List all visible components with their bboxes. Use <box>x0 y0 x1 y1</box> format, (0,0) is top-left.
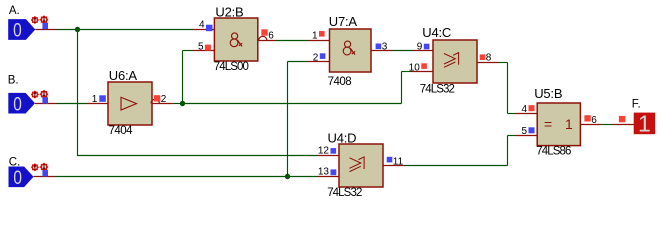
svg-text:4: 4 <box>521 104 527 115</box>
svg-text:74LS32: 74LS32 <box>420 83 455 95</box>
svg-text:C.: C. <box>9 156 20 168</box>
svg-text:10: 10 <box>409 62 421 73</box>
svg-text:0: 0 <box>13 21 22 42</box>
svg-text:74LS00: 74LS00 <box>214 61 249 73</box>
svg-text:U2:B: U2:B <box>215 5 243 20</box>
svg-text:12: 12 <box>318 145 330 156</box>
svg-text:9: 9 <box>417 41 423 52</box>
svg-text:4: 4 <box>199 19 205 30</box>
svg-text:5: 5 <box>521 126 527 137</box>
svg-text:1: 1 <box>312 30 318 41</box>
svg-text:1: 1 <box>92 94 98 105</box>
svg-text:7404: 7404 <box>109 125 134 137</box>
svg-text:U5:B: U5:B <box>534 86 562 101</box>
svg-text:1: 1 <box>565 116 573 132</box>
svg-text:6: 6 <box>268 30 274 41</box>
svg-text:3: 3 <box>382 41 388 52</box>
svg-text:U4:D: U4:D <box>328 130 357 145</box>
svg-text:F.: F. <box>632 99 641 111</box>
svg-text:1: 1 <box>638 111 651 137</box>
svg-text:6: 6 <box>591 115 597 126</box>
svg-text:B.: B. <box>8 75 19 87</box>
svg-text:0: 0 <box>13 168 22 189</box>
svg-text:=: = <box>544 116 552 132</box>
svg-text:7408: 7408 <box>328 76 352 88</box>
svg-text:2: 2 <box>313 52 319 63</box>
svg-text:11: 11 <box>393 156 404 167</box>
svg-text:0: 0 <box>13 94 22 115</box>
svg-text:74LS86: 74LS86 <box>536 146 571 158</box>
svg-text:13: 13 <box>318 167 330 178</box>
svg-text:U6:A: U6:A <box>109 68 138 83</box>
svg-text:A.: A. <box>9 5 20 17</box>
svg-text:8: 8 <box>486 52 492 63</box>
svg-text:U7:A: U7:A <box>329 14 358 29</box>
svg-text:2: 2 <box>161 94 167 105</box>
svg-text:74LS32: 74LS32 <box>327 187 362 199</box>
svg-text:U4:C: U4:C <box>422 25 451 40</box>
svg-text:5: 5 <box>198 41 204 52</box>
